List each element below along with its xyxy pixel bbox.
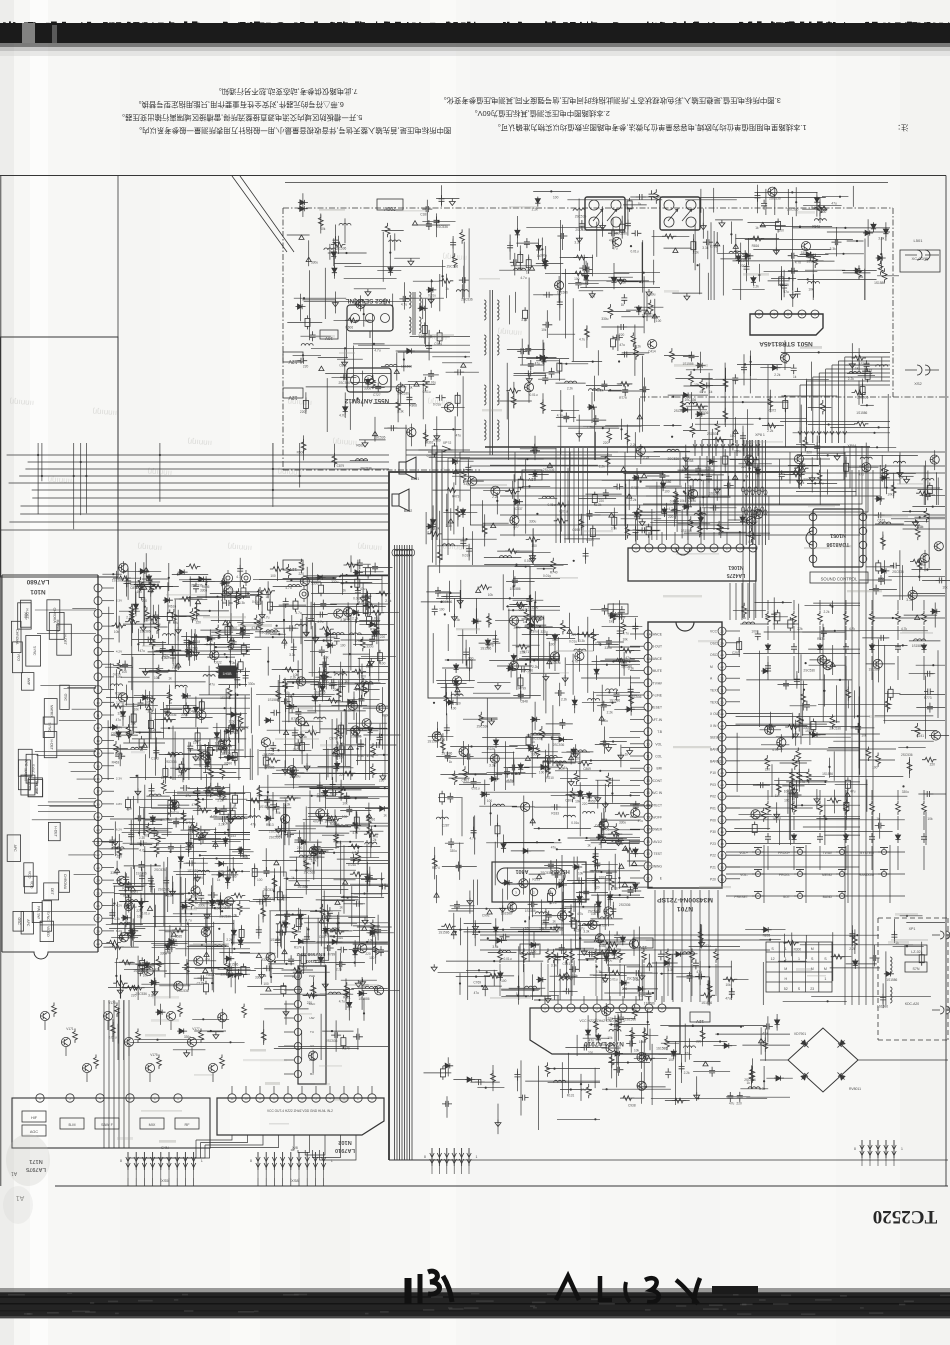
dot junction1647 bbox=[188, 892, 190, 894]
dot junction37 bbox=[788, 277, 790, 279]
cap C214 bbox=[631, 230, 641, 236]
svg-text:1k: 1k bbox=[409, 386, 413, 390]
arr tag138 bbox=[306, 257, 311, 261]
arr tag1415 bbox=[228, 724, 233, 728]
trans V264 bbox=[612, 237, 621, 246]
dot junction1321 bbox=[763, 1080, 765, 1082]
cap C16144 bbox=[219, 816, 229, 822]
cap C212 bbox=[563, 413, 569, 423]
wires bbox=[560, 976, 605, 978]
svg-text:220: 220 bbox=[536, 625, 542, 629]
dot junction130 bbox=[570, 1088, 572, 1090]
ecap C17113 bbox=[281, 986, 286, 994]
diode VD247 bbox=[451, 459, 461, 464]
dot junction16153 bbox=[231, 942, 233, 944]
svg-text:10k: 10k bbox=[887, 492, 893, 496]
svg-text:2SC536: 2SC536 bbox=[553, 743, 565, 747]
arr tag634 bbox=[627, 494, 632, 498]
svg-text:R959: R959 bbox=[588, 800, 596, 804]
svg-text:C257: C257 bbox=[732, 651, 740, 655]
coil L326 bbox=[808, 282, 820, 284]
svg-text:2SC536: 2SC536 bbox=[543, 468, 555, 472]
res R1820 bbox=[527, 620, 532, 634]
svg-text:10k: 10k bbox=[694, 383, 700, 387]
dot junction212 bbox=[906, 746, 908, 748]
dot junction226 bbox=[784, 942, 786, 944]
svg-text:18: 18 bbox=[720, 842, 724, 846]
ecap C438 bbox=[783, 401, 788, 409]
trans V2115 bbox=[931, 731, 940, 740]
gnd gnd345 bbox=[684, 293, 690, 300]
coil L17131 bbox=[336, 825, 348, 827]
svg-text:XS5: XS5 bbox=[161, 1179, 168, 1183]
dot junction214 bbox=[823, 690, 825, 692]
svg-text:C414: C414 bbox=[648, 350, 656, 354]
gnd gnd241 bbox=[526, 376, 532, 383]
res R1774 bbox=[339, 784, 344, 798]
trans V183 bbox=[396, 384, 405, 393]
res R129 bbox=[301, 439, 306, 453]
dot junction1461 bbox=[195, 635, 197, 637]
cap C17135 bbox=[350, 854, 356, 864]
svg-text:3.3k: 3.3k bbox=[878, 237, 884, 241]
svg-text:PAL SW: PAL SW bbox=[36, 906, 40, 919]
wires bbox=[513, 578, 560, 580]
res R169 bbox=[146, 823, 151, 837]
svg-text:330u: 330u bbox=[801, 251, 808, 255]
diode VD340 bbox=[853, 268, 863, 273]
res R124 bbox=[609, 970, 623, 975]
cap C1783 bbox=[304, 933, 310, 943]
dot junction941 bbox=[629, 660, 631, 662]
trans V276 bbox=[636, 446, 645, 455]
gnd gnd2429 bbox=[530, 556, 536, 563]
diode VD168 bbox=[121, 915, 131, 920]
svg-text:11: 11 bbox=[646, 755, 650, 759]
svg-text:R669: R669 bbox=[356, 443, 364, 447]
res R649 bbox=[698, 507, 703, 521]
res R1673 bbox=[124, 986, 138, 991]
cap C15131 bbox=[316, 612, 326, 618]
svg-text:4.7u: 4.7u bbox=[760, 1042, 766, 1046]
cap C1742 bbox=[315, 843, 321, 853]
res R231 bbox=[616, 1017, 621, 1031]
resistor ladder R721 bbox=[792, 611, 797, 625]
node 12V b bbox=[283, 388, 303, 398]
res R1473 bbox=[172, 609, 177, 623]
svg-text:3: 3 bbox=[97, 612, 99, 616]
svg-text:6: 6 bbox=[97, 650, 99, 654]
svg-text:RESET: RESET bbox=[651, 706, 662, 710]
svg-text:2SC536: 2SC536 bbox=[135, 992, 147, 996]
res R128 bbox=[452, 253, 457, 267]
svg-text:TEST: TEST bbox=[654, 852, 662, 856]
svg-text:R203: R203 bbox=[763, 934, 771, 938]
cap C418 bbox=[791, 364, 797, 374]
svg-text:2.2k: 2.2k bbox=[633, 978, 639, 982]
cap C1153 bbox=[614, 931, 620, 941]
svg-text:3.3k: 3.3k bbox=[172, 663, 178, 667]
svg-text:12V: 12V bbox=[288, 358, 298, 364]
cap C1484 bbox=[240, 629, 246, 639]
svg-text:220: 220 bbox=[303, 364, 309, 368]
svg-text:47u: 47u bbox=[131, 905, 137, 909]
gnd gnd429 bbox=[683, 455, 689, 462]
dot junction87 bbox=[915, 520, 917, 522]
trans V1826 bbox=[490, 754, 499, 763]
cap C16141 bbox=[109, 909, 115, 919]
res R288 bbox=[648, 300, 653, 314]
svg-text:P30: P30 bbox=[710, 830, 716, 834]
res R1775 bbox=[367, 812, 372, 826]
connector XS5 bbox=[127, 1152, 129, 1170]
svg-text:AVC IN: AVC IN bbox=[651, 791, 662, 795]
cap C1623 bbox=[197, 975, 207, 981]
res R1440 bbox=[145, 607, 150, 621]
svg-text:TU: TU bbox=[310, 1030, 314, 1034]
arr tag631 bbox=[609, 513, 614, 517]
coil L1120 bbox=[493, 804, 505, 806]
svg-text:2.2k: 2.2k bbox=[684, 1071, 690, 1075]
diode VD1430 bbox=[178, 570, 188, 575]
dot junction1843 bbox=[444, 613, 446, 615]
gnd gnd272 bbox=[600, 223, 606, 230]
svg-text:0.01u: 0.01u bbox=[472, 787, 480, 791]
res R150 bbox=[332, 453, 337, 467]
trans V1693 bbox=[124, 901, 133, 910]
dot junction1471 bbox=[205, 583, 207, 585]
diode VD15132 bbox=[353, 570, 363, 575]
diode VD258 bbox=[536, 243, 541, 253]
svg-text:PRESET: PRESET bbox=[734, 895, 748, 899]
cap C1236 bbox=[658, 950, 664, 960]
dot junction1590 bbox=[312, 695, 314, 697]
svg-text:C912: C912 bbox=[461, 778, 469, 782]
gnd gnd185 bbox=[449, 199, 455, 206]
svg-text:1k: 1k bbox=[291, 876, 295, 880]
button matrix wires bbox=[726, 851, 905, 853]
svg-text:1S1586: 1S1586 bbox=[140, 630, 151, 634]
svg-text:1S1586: 1S1586 bbox=[263, 753, 274, 757]
svg-text:10k: 10k bbox=[342, 801, 348, 805]
res R139 bbox=[700, 1028, 705, 1042]
svg-text:R799: R799 bbox=[518, 687, 526, 691]
ecap C814 bbox=[876, 563, 881, 571]
trans V1021 bbox=[765, 725, 774, 734]
svg-text:R367: R367 bbox=[292, 975, 300, 979]
res R114 bbox=[318, 215, 323, 229]
svg-text:47u: 47u bbox=[535, 362, 541, 366]
cap C14151 bbox=[160, 645, 166, 655]
gnd gnd1696 bbox=[152, 989, 158, 996]
right wiring channel bbox=[460, 451, 945, 453]
ecap C722 bbox=[844, 463, 849, 471]
coil L1485 bbox=[171, 753, 183, 755]
svg-text:R805: R805 bbox=[506, 780, 514, 784]
res R143 bbox=[150, 635, 155, 649]
svg-text:1S1586: 1S1586 bbox=[501, 911, 512, 915]
dot junction1669 bbox=[140, 908, 142, 910]
svg-text:C476: C476 bbox=[688, 499, 696, 503]
svg-text:7: 7 bbox=[647, 706, 649, 710]
diode VD1584 bbox=[313, 694, 318, 704]
res R1326 bbox=[620, 1096, 634, 1101]
svg-text:4.7u: 4.7u bbox=[772, 748, 778, 752]
IC N1051 TDA8198 bbox=[813, 509, 863, 567]
gnd gnd2426 bbox=[530, 553, 536, 560]
ecap C644 bbox=[723, 456, 728, 464]
res R1786 bbox=[356, 850, 361, 864]
cap C1549 bbox=[340, 680, 346, 690]
res R14111 bbox=[146, 616, 160, 621]
handwriting bbox=[405, 1278, 412, 1304]
cap C2144 bbox=[821, 627, 827, 637]
res R16105 bbox=[213, 900, 227, 905]
gnd gnd14130 bbox=[193, 754, 199, 761]
diode VD1699 bbox=[178, 855, 183, 865]
svg-text:4.8V: 4.8V bbox=[116, 802, 122, 806]
diode VD963 bbox=[594, 667, 599, 677]
diode VD1674 bbox=[168, 941, 178, 946]
cap C232 bbox=[549, 368, 555, 378]
svg-text:C372: C372 bbox=[769, 408, 777, 412]
res R918 bbox=[629, 692, 634, 706]
cap C262 bbox=[507, 242, 513, 252]
diode VD1839 bbox=[530, 717, 540, 722]
cap C1527 bbox=[308, 615, 314, 625]
diode VD157 bbox=[372, 630, 377, 640]
arr tag1675 bbox=[198, 833, 203, 837]
svg-text:U101: U101 bbox=[305, 959, 316, 964]
cap C1795 bbox=[326, 912, 332, 922]
dot junction313 bbox=[842, 253, 844, 255]
svg-text:12: 12 bbox=[771, 957, 775, 961]
LA7680 block bbox=[18, 603, 32, 629]
optocoupler N562 bbox=[660, 197, 700, 230]
gnd gnd194 bbox=[213, 1032, 219, 1039]
res R1635 bbox=[156, 956, 161, 970]
gnd gnd16109 bbox=[135, 788, 141, 795]
ecap C180 bbox=[437, 333, 442, 341]
cap C1688 bbox=[137, 840, 147, 846]
svg-text:47u: 47u bbox=[551, 846, 557, 850]
ecap C641 bbox=[754, 460, 759, 468]
coil L162 bbox=[149, 794, 161, 796]
cap C2441 bbox=[583, 550, 589, 560]
trans V1832 bbox=[459, 747, 468, 756]
svg-text:V-LINE: V-LINE bbox=[652, 694, 663, 698]
svg-text:2SC536: 2SC536 bbox=[177, 989, 189, 993]
svg-text:0.01u: 0.01u bbox=[433, 403, 441, 407]
arr tag1177 bbox=[632, 861, 637, 865]
svg-text:52: 52 bbox=[784, 987, 788, 991]
dot junction1486 bbox=[144, 606, 146, 608]
svg-text:23: 23 bbox=[96, 866, 100, 870]
svg-text:27: 27 bbox=[720, 736, 724, 740]
res R314 bbox=[813, 254, 818, 268]
arr tag1778 bbox=[319, 918, 324, 922]
wires bbox=[936, 472, 938, 505]
res R910 bbox=[591, 629, 596, 643]
cap C1456 bbox=[193, 583, 199, 593]
res R1564 bbox=[276, 688, 281, 702]
cap C1447 bbox=[115, 753, 125, 759]
cap C15100 bbox=[295, 708, 301, 718]
svg-text:1S1586: 1S1586 bbox=[609, 699, 620, 703]
cap C976 bbox=[602, 605, 608, 615]
cap C137 bbox=[434, 217, 440, 227]
cap C152 bbox=[283, 598, 289, 608]
dot junction1537 bbox=[336, 747, 338, 749]
ecap C174 bbox=[305, 318, 310, 326]
svg-text:3.3k: 3.3k bbox=[830, 247, 836, 251]
arr tag912 bbox=[567, 629, 572, 633]
svg-text:47u: 47u bbox=[818, 481, 824, 485]
ecap C252 bbox=[523, 310, 528, 318]
cap C613 bbox=[724, 483, 734, 489]
svg-text:2SC536: 2SC536 bbox=[697, 411, 709, 415]
svg-text:47u: 47u bbox=[581, 1088, 587, 1092]
coil L445 bbox=[860, 457, 872, 459]
trans V1518 bbox=[344, 607, 353, 616]
wires bbox=[405, 297, 444, 299]
svg-text:AMP: AMP bbox=[27, 678, 31, 686]
svg-text:12V: 12V bbox=[613, 611, 622, 616]
dot junction1632 bbox=[115, 975, 117, 977]
svg-text:R328: R328 bbox=[261, 958, 269, 962]
arr tag2110 bbox=[915, 615, 920, 619]
res R1913 bbox=[111, 1022, 116, 1036]
res R1670 bbox=[224, 960, 229, 974]
svg-text:APC: APC bbox=[24, 759, 28, 767]
res R1797 bbox=[344, 986, 349, 1000]
svg-text:C879: C879 bbox=[337, 464, 345, 468]
arr tag2438 bbox=[448, 519, 453, 523]
res R1466 bbox=[156, 665, 161, 679]
svg-text:330u: 330u bbox=[605, 646, 612, 650]
gnd gnd1872 bbox=[451, 614, 457, 621]
svg-text:2: 2 bbox=[97, 599, 99, 603]
svg-text:1S1586: 1S1586 bbox=[525, 909, 536, 913]
svg-text:0.01u: 0.01u bbox=[428, 293, 436, 297]
cap C162 bbox=[436, 395, 446, 401]
svg-text:1S1586: 1S1586 bbox=[874, 281, 885, 285]
coil L980 bbox=[588, 699, 600, 701]
cap C1332 bbox=[665, 1068, 671, 1078]
diode VD167 bbox=[343, 405, 348, 415]
svg-text:VT: VT bbox=[310, 1044, 314, 1048]
dot junction22 bbox=[541, 248, 543, 250]
gnd gnd120 bbox=[602, 975, 608, 982]
cap C947 bbox=[632, 623, 638, 633]
svg-text:100: 100 bbox=[215, 907, 221, 911]
dot junction412 bbox=[866, 404, 868, 406]
trans V192 bbox=[218, 1013, 227, 1022]
ecap C154 bbox=[432, 446, 437, 454]
trans V1571 bbox=[300, 577, 309, 586]
dot junction119 bbox=[431, 280, 433, 282]
diode VD1136 bbox=[633, 882, 638, 892]
arr tag153 bbox=[353, 731, 358, 735]
dot junction70 bbox=[814, 482, 816, 484]
dot junction173 bbox=[357, 397, 359, 399]
dot junction14129 bbox=[168, 670, 170, 672]
svg-text:1k: 1k bbox=[625, 753, 629, 757]
res R251 bbox=[543, 255, 548, 269]
ecap C320 bbox=[776, 222, 781, 230]
res R921 bbox=[611, 609, 616, 623]
arr tag955 bbox=[599, 716, 604, 720]
dot junction1682 bbox=[167, 818, 169, 820]
diode VD16110 bbox=[149, 980, 159, 985]
res R643 bbox=[673, 488, 678, 502]
cap C207 bbox=[519, 1095, 529, 1101]
trans V2439 bbox=[468, 477, 477, 486]
diode VD16114 bbox=[172, 800, 177, 810]
cap C157 bbox=[375, 383, 381, 393]
node 12V 3 bbox=[522, 470, 542, 480]
diode VD140 bbox=[332, 266, 337, 276]
svg-text:1.本线路里电阻阻值单位均为欧姆,电容容量单位为微法,参考电: 1.本线路里电阻阻值单位均为欧姆,电容容量单位为微法,参考电路图示数值均以实物为… bbox=[493, 123, 806, 132]
svg-text:4.7u: 4.7u bbox=[263, 615, 269, 619]
res R1626 bbox=[226, 869, 240, 874]
svg-text:1: 1 bbox=[785, 957, 787, 961]
res R934 bbox=[570, 788, 575, 802]
coil L179 bbox=[385, 364, 397, 366]
cap C209 bbox=[442, 1101, 452, 1107]
coil L944 bbox=[574, 649, 586, 651]
svg-text:0.01u: 0.01u bbox=[569, 640, 577, 644]
res R1744 bbox=[373, 943, 378, 957]
svg-text:CHROMA: CHROMA bbox=[52, 608, 56, 624]
trans V161 bbox=[144, 966, 153, 975]
dot junction122 bbox=[302, 354, 304, 356]
coil L948 bbox=[563, 815, 575, 817]
dot junction1732 bbox=[338, 922, 340, 924]
cap C15115 bbox=[374, 627, 380, 637]
svg-text:17: 17 bbox=[720, 854, 724, 858]
degauss + AC inlet bbox=[878, 917, 948, 919]
res R65 bbox=[697, 523, 702, 537]
svg-text:BRI: BRI bbox=[657, 767, 663, 771]
coil L1679 bbox=[119, 923, 131, 925]
coil L423 bbox=[876, 365, 888, 367]
transistor V172 bbox=[82, 1063, 91, 1072]
res R2120 bbox=[907, 759, 912, 773]
res R1419 bbox=[161, 717, 175, 722]
gnd gnd1548 bbox=[298, 732, 304, 739]
coil L1241 bbox=[559, 979, 571, 981]
svg-text:LZ-02: LZ-02 bbox=[911, 950, 920, 954]
trans V1148 bbox=[599, 820, 608, 829]
coil L2435 bbox=[443, 544, 455, 546]
svg-text:TEX2: TEX2 bbox=[710, 700, 718, 704]
coil L144 bbox=[356, 459, 368, 461]
res R181 bbox=[371, 375, 376, 389]
cap C914 bbox=[633, 801, 639, 811]
res R17102 bbox=[303, 993, 317, 998]
svg-text:3.3k: 3.3k bbox=[579, 639, 585, 643]
svg-text:12: 12 bbox=[96, 726, 100, 730]
svg-text:2.3V: 2.3V bbox=[116, 599, 122, 603]
wires bbox=[557, 1118, 600, 1120]
res R416 bbox=[715, 421, 720, 435]
trans V159 bbox=[287, 766, 296, 775]
svg-text:1S1586: 1S1586 bbox=[136, 871, 147, 875]
trans V13 bbox=[356, 299, 365, 308]
dot junction1132 bbox=[586, 959, 588, 961]
dot junction1552 bbox=[350, 586, 352, 588]
